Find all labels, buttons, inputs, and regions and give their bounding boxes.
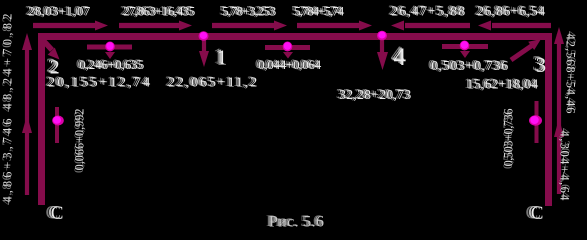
svg-text:0,066+0,992: 0,066+0,992: [73, 109, 87, 171]
label left supply upper (rotated): [0, 14, 15, 113]
flow arrow segment S1: [33, 23, 96, 28]
svg-text:C: C: [531, 203, 544, 224]
svg-text:0,044+0,064: 0,044+0,064: [258, 57, 322, 72]
flow arrow segment S5 (leftward): [405, 23, 470, 28]
arrowhead right supply top: [554, 27, 564, 44]
svg-text:1: 1: [217, 46, 228, 70]
stub C outlet arrow: [460, 51, 470, 58]
node dot on node 4: [377, 31, 387, 41]
node dot right tap: [529, 115, 542, 125]
stub pipe A: [87, 45, 132, 50]
node number 1: [213, 44, 227, 70]
arrowhead left supply mid: [22, 115, 32, 133]
label Q-h segment 6 top: [474, 2, 545, 18]
svg-text:3: 3: [536, 53, 547, 77]
stub A outlet arrow: [105, 52, 115, 59]
pipe main ring: left riser, top main, right riser: [42, 37, 549, 207]
svg-text:2: 2: [50, 57, 60, 79]
svg-text:C: C: [51, 203, 64, 224]
svg-text:48,24+70,82: 48,24+70,82: [1, 14, 15, 110]
label Q-h segment 2 top: [120, 2, 195, 18]
label Q-h segment 3 top: [219, 2, 276, 18]
svg-text:26,86+6,54: 26,86+6,54: [477, 4, 545, 19]
arrowhead left supply top: [22, 33, 32, 50]
label pipe 1 lower: [165, 75, 257, 91]
svg-text:22,065+11,2: 22,065+11,2: [168, 76, 257, 91]
label left supply lower (rotated): [0, 119, 15, 206]
reservoir label C right: [526, 203, 544, 224]
branch diagonal to node 2: [40, 37, 52, 50]
node number 2: [46, 55, 60, 79]
label right tap (rotated): [501, 109, 516, 170]
stub B outlet arrow: [283, 52, 293, 59]
svg-text:4,304+4,64: 4,304+4,64: [558, 131, 572, 202]
svg-text:4: 4: [394, 44, 407, 71]
svg-text:0,503+0,736: 0,503+0,736: [502, 109, 516, 167]
node dot stub C: [460, 41, 470, 51]
arrowhead right supply mid: [554, 118, 564, 137]
node 1 outlet arrow: [202, 40, 206, 53]
node dot stub B: [283, 42, 293, 52]
right lower tap stub: [535, 101, 539, 143]
reservoir label C left: [46, 203, 64, 224]
svg-text:5,78+3,253: 5,78+3,253: [222, 4, 276, 19]
node dot stub A: [105, 42, 115, 52]
flow arrow segment S3: [212, 23, 274, 28]
label Q-h segment 1 top: [25, 2, 91, 18]
svg-text:42,568+54,46: 42,568+54,46: [564, 34, 578, 114]
svg-text:Рис. 5.6: Рис. 5.6: [269, 213, 324, 230]
label Q-h segment 5 top: [388, 4, 465, 20]
svg-text:28,03+1,07: 28,03+1,07: [28, 4, 90, 19]
caption Рис. 5.6: [266, 213, 324, 230]
stub pipe C: [442, 44, 488, 49]
node number 3: [532, 51, 546, 77]
node 4 outlet arrow: [380, 40, 384, 53]
label stub C flow: [428, 58, 508, 74]
svg-text:0,503+0,736: 0,503+0,736: [431, 59, 508, 74]
left lower tap stub: [55, 107, 59, 143]
flow arrow segment S4: [297, 23, 359, 28]
svg-text:5,784+5,74: 5,784+5,74: [294, 4, 345, 19]
node dot on node 1: [199, 31, 209, 41]
label right supply upper (rotated): [564, 31, 579, 114]
label pipe 2-G lower: [45, 75, 150, 91]
label stub A flow: [76, 56, 144, 72]
svg-text:0,246+0,635: 0,246+0,635: [79, 57, 144, 72]
label stub B flow: [255, 56, 322, 72]
node dot left tap: [52, 116, 64, 126]
label pipe 4 lower: [336, 86, 411, 102]
svg-text:32,28+20,73: 32,28+20,73: [339, 87, 411, 102]
branch diagonal from node 3 side: [511, 46, 532, 61]
svg-text:27,863+16,435: 27,863+16,435: [123, 4, 195, 19]
flow arrow segment S6 (leftward): [492, 23, 551, 28]
label Q-h segment 4 top: [291, 2, 345, 18]
label right supply lower (rotated): [558, 128, 573, 201]
flow arrow segment S2: [119, 23, 180, 28]
svg-text:26,47+5,88: 26,47+5,88: [391, 5, 465, 20]
svg-text:15,62+18,04: 15,62+18,04: [467, 77, 538, 92]
wire right supply arrow line: [557, 34, 561, 194]
label left tap (rotated): [72, 109, 87, 174]
svg-text:20,155+12,74: 20,155+12,74: [48, 76, 150, 91]
node number 4: [391, 42, 407, 71]
stub pipe B: [265, 45, 310, 50]
label pipe 3 lower: [464, 76, 538, 92]
wire left supply arrow line: [25, 40, 29, 195]
